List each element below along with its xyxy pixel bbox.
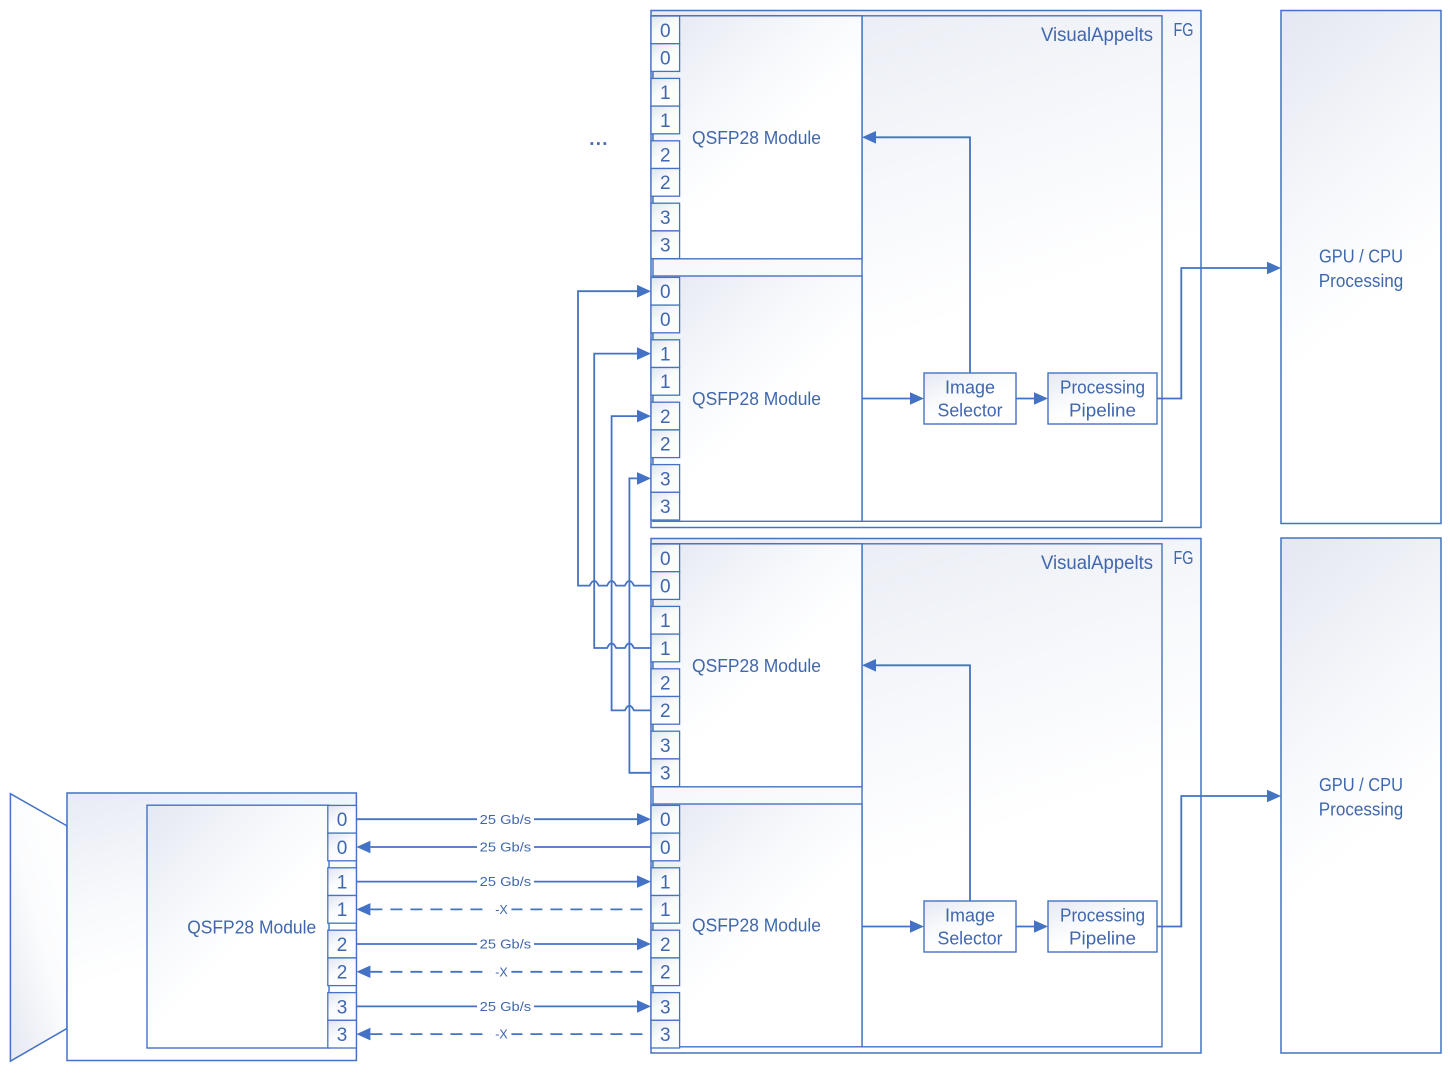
FG2 module B port 3 tx — [651, 993, 680, 1021]
FG1 module B port 2 tx — [651, 402, 680, 430]
svg-text:0: 0 — [660, 49, 671, 70]
GPU2 GPU / CPU Processing box — [1281, 538, 1441, 1053]
svg-text:Processing: Processing — [1060, 905, 1145, 925]
svg-text:Pipeline: Pipeline — [1069, 929, 1136, 949]
svg-text:2: 2 — [660, 963, 671, 984]
svg-text:0: 0 — [660, 21, 671, 42]
wire camera lane3 tx 25 Gb/s — [356, 1000, 651, 1014]
camera QSFP28 module box — [147, 805, 329, 1048]
FG1 module B port 0 tx — [651, 277, 680, 305]
wire FG2 module A lane2 to FG1 module B lane2 — [612, 410, 651, 711]
svg-text:3: 3 — [337, 997, 348, 1018]
svg-text:FG: FG — [1174, 548, 1194, 568]
camera port 3 tx — [328, 993, 357, 1021]
svg-text:Image: Image — [945, 905, 995, 925]
svg-text:3: 3 — [660, 208, 671, 229]
wire camera lane2 tx 25 Gb/s — [356, 937, 651, 951]
svg-text:FG: FG — [1174, 20, 1194, 40]
svg-text:2: 2 — [337, 963, 348, 984]
svg-text:2: 2 — [337, 935, 348, 956]
svg-text:3: 3 — [337, 1025, 348, 1046]
FG2 board divider line — [861, 544, 863, 1047]
FG2 module A port 3 rx — [651, 759, 680, 787]
camera body box — [67, 793, 356, 1061]
svg-text:3: 3 — [660, 997, 671, 1018]
wire camera lane0 rx 25 Gb/s — [356, 840, 651, 854]
frame grabber FG2 outer box — [651, 539, 1201, 1054]
FG1 module A port 1 rx — [651, 106, 680, 134]
wire camera lane1 tx 25 Gb/s — [356, 875, 651, 889]
svg-text:-X: -X — [495, 903, 508, 917]
FG1 wire Image Selector to Processing Pipeline — [1016, 392, 1048, 405]
FG2 module B port 2 rx — [651, 958, 680, 986]
svg-text:25 Gb/s: 25 Gb/s — [480, 875, 532, 889]
svg-text:VisualAppelts: VisualAppelts — [1041, 24, 1153, 46]
camera port 1 rx — [328, 896, 357, 924]
FG2 wire module B to Image Selector — [862, 920, 924, 933]
svg-text:1: 1 — [337, 900, 348, 921]
FG2 module B port 1 tx — [651, 868, 680, 896]
FG2 wire Processing Pipeline to GPU — [1157, 790, 1281, 927]
svg-text:1: 1 — [660, 111, 671, 132]
svg-text:3: 3 — [660, 236, 671, 257]
camera port 3 rx — [328, 1020, 357, 1048]
svg-text:3: 3 — [660, 736, 671, 757]
svg-text:Selector: Selector — [938, 401, 1003, 421]
FG1 QSFP28 module A box — [653, 16, 862, 259]
svg-text:3: 3 — [660, 497, 671, 518]
svg-text:1: 1 — [660, 873, 671, 894]
wire camera lane0 tx 25 Gb/s — [356, 813, 651, 827]
camera port 2 tx — [328, 930, 357, 958]
svg-text:Processing: Processing — [1319, 799, 1404, 820]
svg-text:-X: -X — [495, 965, 508, 979]
svg-text:-X: -X — [495, 1028, 508, 1042]
camera lens — [10, 794, 67, 1061]
FG1 module B port 1 tx — [651, 340, 680, 368]
FG2 wire Image Selector feedback to module A — [862, 659, 970, 901]
camera port 2 rx — [328, 958, 357, 986]
FG1 Image Selector box — [924, 373, 1016, 424]
svg-text:1: 1 — [660, 900, 671, 921]
FG2 module A port 0 rx — [651, 572, 680, 600]
svg-text:25 Gb/s: 25 Gb/s — [480, 813, 532, 827]
FG2 QSFP28 module A box — [653, 544, 862, 787]
svg-text:25 Gb/s: 25 Gb/s — [480, 938, 532, 952]
svg-text:QSFP28 Module: QSFP28 Module — [692, 656, 821, 676]
svg-text:0: 0 — [660, 549, 671, 570]
svg-text:GPU / CPU: GPU / CPU — [1319, 774, 1403, 795]
FG2 module A port 3 tx — [651, 731, 680, 759]
svg-text:3: 3 — [660, 469, 671, 490]
FG1 module A port 3 tx — [651, 203, 680, 231]
FG2 module B port 2 tx — [651, 930, 680, 958]
svg-text:2: 2 — [660, 674, 671, 695]
svg-text:QSFP28 Module: QSFP28 Module — [187, 917, 316, 937]
svg-text:25 Gb/s: 25 Gb/s — [480, 1000, 532, 1014]
FG2 wire Image Selector to Processing Pipeline — [1016, 920, 1048, 933]
FG1 module A port 1 tx — [651, 78, 680, 106]
FG2 module A port 0 tx — [651, 544, 680, 572]
FG1 module B port 1 rx — [651, 368, 680, 396]
svg-text:VisualAppelts: VisualAppelts — [1041, 552, 1153, 574]
FG2 module A port 2 rx — [651, 697, 680, 725]
svg-text:0: 0 — [660, 838, 671, 859]
svg-text:1: 1 — [337, 873, 348, 894]
svg-text:0: 0 — [660, 282, 671, 303]
FG1 wire module B to Image Selector — [862, 392, 924, 405]
FG1 module B port 0 rx — [651, 305, 680, 333]
svg-text:Selector: Selector — [938, 929, 1003, 949]
FG1 board divider line — [861, 16, 863, 522]
svg-text:1: 1 — [660, 372, 671, 393]
ellipsis more frame grabbers — [591, 142, 607, 145]
svg-text:1: 1 — [660, 83, 671, 104]
FG2 module A port 2 tx — [651, 669, 680, 697]
svg-text:3: 3 — [660, 1025, 671, 1046]
svg-text:2: 2 — [660, 701, 671, 722]
FG2 module B port 1 rx — [651, 896, 680, 924]
svg-text:2: 2 — [660, 435, 671, 456]
wire FG2 module A lane1 to FG1 module B lane1 — [594, 347, 651, 648]
FG2 QSFP28 module B box — [653, 804, 862, 1047]
FG2 module A port 1 tx — [651, 606, 680, 634]
GPU1 GPU / CPU Processing box — [1281, 11, 1441, 524]
wire camera lane2 rx disabled dashed — [356, 965, 651, 979]
FG1 module A port 2 tx — [651, 141, 680, 169]
svg-text:QSFP28 Module: QSFP28 Module — [692, 389, 821, 409]
svg-text:0: 0 — [337, 810, 348, 831]
FG1 module B port 2 rx — [651, 430, 680, 458]
camera port 1 tx — [328, 868, 357, 896]
svg-text:QSFP28 Module: QSFP28 Module — [692, 916, 821, 936]
svg-text:2: 2 — [660, 173, 671, 194]
frame grabber FG1 outer box — [651, 11, 1201, 528]
FG1 module B port 3 tx — [651, 465, 680, 493]
FG1 module A port 3 rx — [651, 231, 680, 259]
svg-text:3: 3 — [660, 764, 671, 785]
FG1 module A port 0 rx — [651, 44, 680, 72]
svg-text:2: 2 — [660, 935, 671, 956]
FG2 Image Selector box — [924, 901, 1016, 952]
FG1 wire Image Selector feedback to module A — [862, 131, 970, 373]
svg-text:1: 1 — [660, 639, 671, 660]
FG1 module A port 0 tx — [651, 16, 680, 44]
FG2 module B port 0 tx — [651, 805, 680, 833]
FG2 VisualAppelts board box — [653, 544, 1162, 1047]
FG1 module A port 2 rx — [651, 169, 680, 197]
FG1 Processing Pipeline box — [1048, 373, 1157, 424]
FG2 module A port 1 rx — [651, 634, 680, 662]
FG1 wire Processing Pipeline to GPU — [1157, 262, 1281, 399]
svg-text:Pipeline: Pipeline — [1069, 401, 1136, 421]
wire FG2 module A lane3 to FG1 module B lane3 — [629, 472, 651, 773]
svg-text:25 Gb/s: 25 Gb/s — [480, 841, 532, 855]
svg-text:2: 2 — [660, 407, 671, 428]
svg-text:1: 1 — [660, 345, 671, 366]
FG2 module B port 3 rx — [651, 1020, 680, 1048]
wire camera lane3 rx disabled dashed — [356, 1027, 651, 1041]
svg-text:2: 2 — [660, 146, 671, 167]
FG2 module B port 0 rx — [651, 833, 680, 861]
wire FG2 module A lane0 to FG1 module B lane0 — [578, 285, 651, 586]
svg-text:Processing: Processing — [1060, 377, 1145, 397]
FG2 Processing Pipeline box — [1048, 901, 1157, 952]
camera port 0 rx — [328, 833, 357, 861]
svg-text:Processing: Processing — [1319, 270, 1404, 291]
FG1 module B port 3 rx — [651, 492, 680, 520]
FG1 VisualAppelts board box — [653, 16, 1162, 522]
camera port 0 tx — [328, 805, 357, 833]
svg-text:Image: Image — [945, 377, 995, 397]
svg-text:0: 0 — [660, 310, 671, 331]
svg-text:1: 1 — [660, 611, 671, 632]
FG1 QSFP28 module B box — [653, 276, 862, 521]
svg-text:QSFP28 Module: QSFP28 Module — [692, 128, 821, 148]
svg-text:GPU / CPU: GPU / CPU — [1319, 246, 1403, 267]
svg-text:0: 0 — [660, 577, 671, 598]
svg-text:0: 0 — [337, 838, 348, 859]
wire camera lane1 rx disabled dashed — [356, 903, 651, 917]
svg-text:0: 0 — [660, 810, 671, 831]
